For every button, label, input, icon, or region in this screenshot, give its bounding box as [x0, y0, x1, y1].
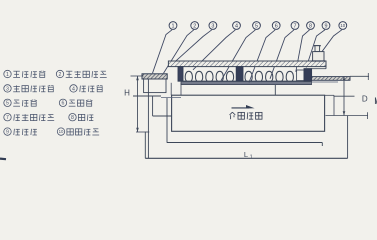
svg-text:1: 1	[6, 72, 9, 78]
svg-text:3: 3	[211, 23, 214, 29]
svg-text:8: 8	[309, 23, 312, 29]
svg-text:10: 10	[59, 129, 64, 134]
svg-text:1: 1	[250, 154, 253, 160]
svg-text:2: 2	[193, 23, 196, 29]
svg-text:D: D	[362, 94, 368, 103]
svg-text:6: 6	[62, 101, 65, 107]
svg-text:L: L	[244, 150, 248, 159]
svg-text:5: 5	[255, 23, 258, 29]
svg-text:7: 7	[294, 23, 297, 29]
svg-text:4: 4	[72, 86, 75, 92]
svg-text:4: 4	[235, 23, 238, 29]
svg-text:9: 9	[6, 129, 9, 135]
svg-text:8: 8	[71, 115, 74, 121]
svg-text:7: 7	[6, 115, 9, 121]
svg-text:1: 1	[172, 23, 175, 29]
svg-text:6: 6	[275, 23, 278, 29]
svg-text:3: 3	[6, 86, 9, 92]
svg-text:H: H	[124, 88, 130, 97]
svg-text:2: 2	[59, 72, 62, 78]
svg-text:10: 10	[340, 23, 345, 28]
svg-text:5: 5	[6, 101, 9, 107]
svg-text:9: 9	[325, 23, 328, 29]
